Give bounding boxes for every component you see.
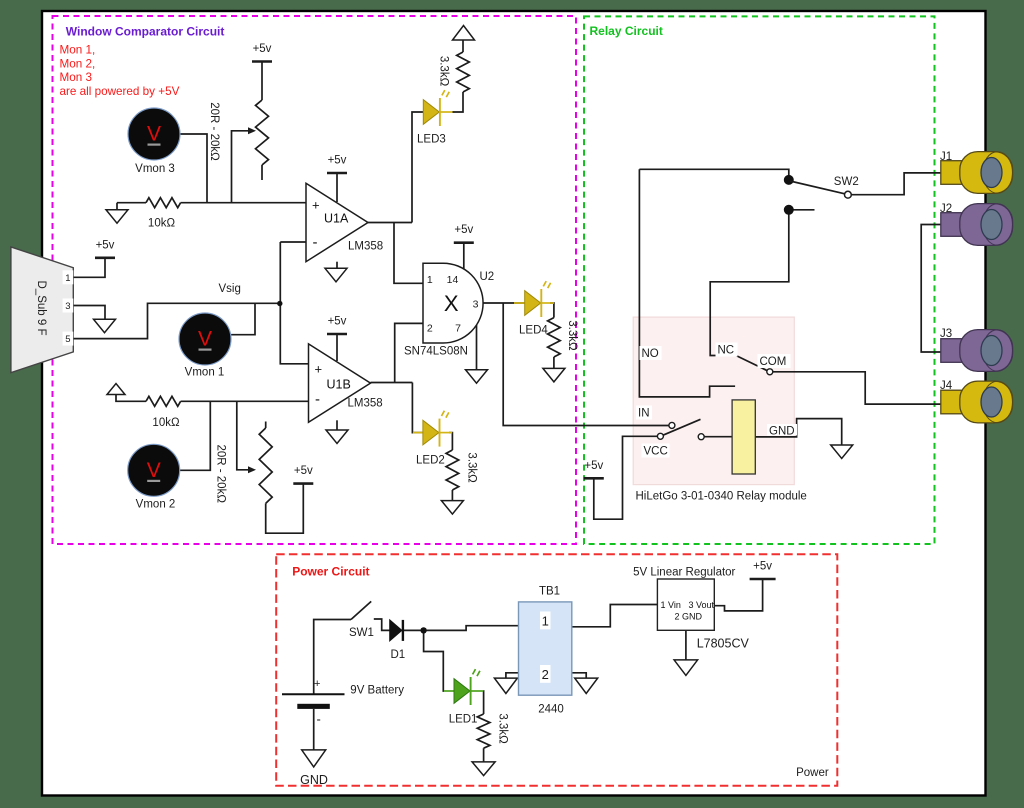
svg-text:+5v: +5v bbox=[753, 561, 772, 573]
svg-text:U1B: U1B bbox=[327, 378, 351, 392]
svg-text:1: 1 bbox=[542, 614, 549, 629]
svg-text:D1: D1 bbox=[391, 649, 406, 661]
svg-text:+5v: +5v bbox=[294, 465, 313, 477]
svg-text:Power Circuit: Power Circuit bbox=[292, 565, 369, 579]
svg-text:2440: 2440 bbox=[538, 704, 564, 716]
svg-text:2 GND: 2 GND bbox=[675, 612, 703, 622]
svg-text:IN: IN bbox=[638, 408, 650, 420]
svg-text:Mon 3: Mon 3 bbox=[60, 71, 92, 84]
svg-text:U1A: U1A bbox=[324, 212, 349, 226]
svg-text:+: + bbox=[315, 362, 323, 377]
svg-text:2: 2 bbox=[542, 667, 549, 682]
svg-text:+5v: +5v bbox=[454, 224, 473, 236]
svg-text:+5v: +5v bbox=[584, 460, 603, 472]
svg-text:X: X bbox=[444, 291, 459, 316]
svg-text:J3: J3 bbox=[940, 328, 952, 340]
svg-text:are all powered by +5V: are all powered by +5V bbox=[60, 85, 180, 98]
svg-text:+: + bbox=[312, 198, 320, 213]
svg-text:+5v: +5v bbox=[328, 316, 347, 328]
svg-text:SN74LS08N: SN74LS08N bbox=[404, 346, 468, 358]
svg-text:NC: NC bbox=[718, 345, 735, 357]
svg-text:V: V bbox=[147, 123, 161, 146]
svg-text:J4: J4 bbox=[940, 380, 953, 392]
svg-text:VCC: VCC bbox=[644, 446, 668, 458]
svg-text:Mon 1,: Mon 1, bbox=[60, 44, 96, 57]
svg-text:Vsig: Vsig bbox=[219, 283, 241, 295]
svg-text:20R - 20kΩ: 20R - 20kΩ bbox=[208, 102, 220, 161]
svg-text:1 Vin: 1 Vin bbox=[661, 600, 681, 610]
svg-text:+5v: +5v bbox=[96, 239, 115, 251]
svg-text:Vmon 3: Vmon 3 bbox=[135, 163, 175, 175]
svg-text:7: 7 bbox=[455, 323, 461, 335]
svg-text:NO: NO bbox=[642, 348, 659, 360]
svg-text:3.3kΩ: 3.3kΩ bbox=[497, 713, 509, 744]
svg-text:10kΩ: 10kΩ bbox=[152, 417, 180, 429]
svg-text:+: + bbox=[314, 678, 320, 690]
svg-text:U2: U2 bbox=[480, 271, 495, 283]
svg-text:Vmon 2: Vmon 2 bbox=[136, 499, 176, 511]
svg-text:+5v: +5v bbox=[328, 155, 347, 167]
svg-text:LM358: LM358 bbox=[348, 241, 383, 253]
svg-text:-: - bbox=[313, 234, 318, 251]
svg-text:Power: Power bbox=[796, 767, 829, 779]
svg-text:3.3kΩ: 3.3kΩ bbox=[465, 452, 477, 483]
svg-text:TB1: TB1 bbox=[539, 586, 560, 598]
svg-text:GND: GND bbox=[300, 773, 328, 787]
svg-text:14: 14 bbox=[447, 274, 459, 286]
svg-text:5: 5 bbox=[65, 334, 70, 345]
svg-text:1: 1 bbox=[65, 273, 70, 284]
svg-text:SW2: SW2 bbox=[834, 176, 859, 188]
svg-text:D_Sub 9 F: D_Sub 9 F bbox=[35, 281, 47, 336]
svg-text:1: 1 bbox=[427, 274, 433, 286]
svg-text:J2: J2 bbox=[940, 203, 952, 215]
svg-text:J1: J1 bbox=[940, 151, 952, 163]
svg-text:10kΩ: 10kΩ bbox=[148, 218, 176, 230]
svg-text:V: V bbox=[147, 459, 161, 482]
svg-text:GND: GND bbox=[769, 426, 795, 438]
svg-text:LED1: LED1 bbox=[449, 714, 478, 726]
svg-text:Window Comparator Circuit: Window Comparator Circuit bbox=[66, 25, 225, 39]
svg-text:-: - bbox=[317, 712, 321, 727]
svg-text:LED3: LED3 bbox=[417, 134, 446, 146]
svg-text:HiLetGo 3-01-0340 Relay module: HiLetGo 3-01-0340 Relay module bbox=[636, 491, 807, 503]
svg-text:3: 3 bbox=[65, 301, 70, 312]
svg-text:+5v: +5v bbox=[253, 43, 272, 55]
svg-text:-: - bbox=[315, 391, 320, 408]
svg-text:SW1: SW1 bbox=[349, 627, 374, 639]
svg-text:L7805CV: L7805CV bbox=[697, 637, 750, 651]
svg-text:LED2: LED2 bbox=[416, 455, 445, 467]
svg-text:9V Battery: 9V Battery bbox=[350, 685, 404, 697]
svg-text:20R - 20kΩ: 20R - 20kΩ bbox=[214, 444, 226, 503]
svg-text:2: 2 bbox=[427, 323, 433, 335]
svg-text:3.3kΩ: 3.3kΩ bbox=[438, 56, 450, 87]
svg-text:3 Vout: 3 Vout bbox=[689, 600, 715, 610]
svg-text:3: 3 bbox=[473, 299, 479, 311]
svg-text:Vmon 1: Vmon 1 bbox=[185, 367, 225, 379]
svg-text:COM: COM bbox=[760, 356, 787, 368]
svg-text:Relay Circuit: Relay Circuit bbox=[590, 24, 663, 38]
svg-text:5V Linear Regulator: 5V Linear Regulator bbox=[633, 567, 735, 579]
svg-text:3.3kΩ: 3.3kΩ bbox=[566, 320, 578, 351]
svg-text:V: V bbox=[198, 328, 212, 351]
svg-text:Mon 2,: Mon 2, bbox=[60, 57, 96, 70]
svg-text:LED4: LED4 bbox=[519, 325, 548, 337]
svg-text:LM358: LM358 bbox=[348, 398, 383, 410]
